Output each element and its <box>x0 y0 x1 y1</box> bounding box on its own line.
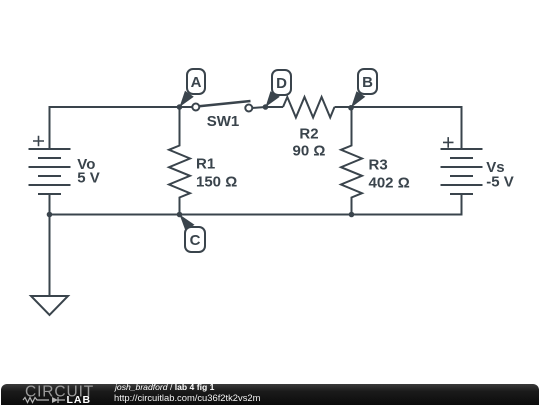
svg-text:R1: R1 <box>196 156 215 173</box>
svg-text:SW1: SW1 <box>207 113 240 130</box>
svg-text:B: B <box>362 74 373 91</box>
svg-text:402 Ω: 402 Ω <box>369 175 410 192</box>
svg-text:R2: R2 <box>299 125 318 142</box>
svg-text:A: A <box>191 74 202 91</box>
svg-text:5 V: 5 V <box>77 170 100 187</box>
svg-text:C: C <box>190 232 201 249</box>
svg-text:D: D <box>276 75 287 92</box>
svg-text:R3: R3 <box>369 157 388 174</box>
svg-text:150 Ω: 150 Ω <box>196 173 237 190</box>
svg-text:90 Ω: 90 Ω <box>293 143 326 160</box>
svg-text:-5 V: -5 V <box>486 173 514 190</box>
